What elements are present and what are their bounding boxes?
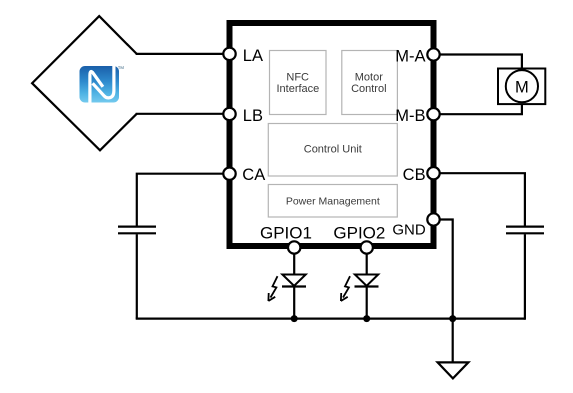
- svg-text:Power Management: Power Management: [286, 196, 380, 208]
- ground symbol: [438, 362, 469, 378]
- svg-text:M: M: [515, 79, 529, 97]
- svg-text:CB: CB: [403, 166, 426, 184]
- block NFC Interface: [270, 51, 327, 115]
- IC U1 block outline: [230, 23, 434, 246]
- junction D2 / ground bus: [363, 315, 370, 322]
- junction ground bus / GND: [449, 315, 456, 322]
- block Control Unit: [268, 124, 397, 177]
- svg-text:GND: GND: [392, 222, 426, 239]
- block Motor Control: [342, 51, 398, 115]
- pin GPIO2: [361, 241, 373, 253]
- svg-text:Control: Control: [351, 83, 386, 95]
- junction D1 / ground bus: [291, 315, 298, 322]
- LED D1: [268, 275, 306, 302]
- pin CB: [427, 167, 439, 179]
- capacitor C2 (right): [506, 227, 544, 234]
- svg-text:GPIO1: GPIO1: [260, 224, 312, 243]
- pin LB: [223, 108, 235, 120]
- pin CA: [223, 168, 235, 180]
- pin M-B: [427, 108, 439, 120]
- pin LA: [223, 48, 235, 60]
- wire M-A to motor: [440, 55, 522, 69]
- svg-text:GPIO2: GPIO2: [333, 224, 385, 243]
- NFC logo N-Mark: [80, 66, 125, 103]
- pin GND: [427, 213, 439, 225]
- svg-text:CA: CA: [242, 166, 265, 184]
- ground bus wire: [136, 318, 525, 320]
- wire ANT1 to pin LA: [136, 53, 224, 55]
- svg-text:Control Unit: Control Unit: [304, 144, 362, 156]
- wire GND pin to ground: [440, 220, 453, 363]
- wire LED D2 to ground bus: [366, 287, 368, 318]
- svg-text:Interface: Interface: [276, 83, 319, 95]
- wire C1 to ground bus: [136, 234, 138, 318]
- svg-text:Motor: Motor: [355, 72, 383, 84]
- svg-text:M-A: M-A: [395, 47, 425, 65]
- pin M-A: [427, 48, 439, 60]
- svg-text:™: ™: [117, 66, 124, 73]
- wire C2 to ground bus: [524, 234, 526, 319]
- LED D2: [341, 275, 379, 302]
- wire CA to left capacitor: [137, 174, 224, 226]
- wire CB to right capacitor: [440, 173, 525, 226]
- svg-text:LB: LB: [243, 107, 263, 125]
- wire GPIO1 to LED D1: [293, 253, 295, 274]
- wire GPIO2 to LED D2: [366, 253, 368, 274]
- antenna coil ANT1 (diamond loop): [32, 16, 137, 150]
- svg-text:LA: LA: [243, 47, 263, 65]
- pin GPIO1: [288, 241, 300, 253]
- svg-text:M-B: M-B: [395, 107, 425, 125]
- block Power Management: [268, 185, 397, 218]
- motor M1: [498, 69, 545, 105]
- wire ANT1 to pin LB: [136, 113, 224, 115]
- capacitor C1 (left): [118, 227, 156, 234]
- wire LED D1 to ground bus: [293, 287, 295, 318]
- wire M-B to motor: [440, 104, 522, 114]
- svg-text:NFC: NFC: [286, 72, 309, 84]
